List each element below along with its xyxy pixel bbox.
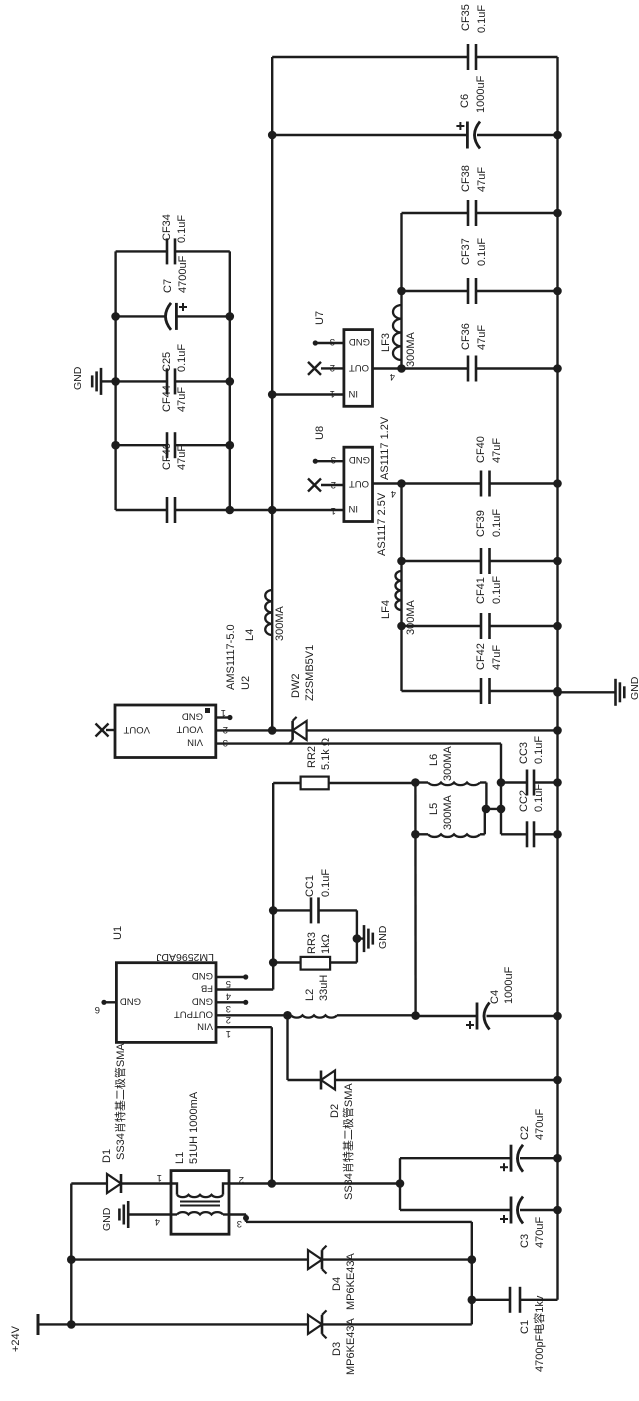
wire link vertical [485,808,501,810]
node CF40-GND [553,479,562,488]
inductor LF4 300MA [400,609,402,611]
svg-text:MP6KE43A: MP6KE43A [345,1252,357,1310]
svg-text:470uF: 470uF [534,1217,546,1248]
inductor L6 300MA [415,781,428,783]
svg-text:L5: L5 [428,803,440,815]
ground at L1 pin4 [127,1201,130,1228]
1.2V output rail [400,360,402,369]
ground near RR3 [363,925,366,952]
pin 4 wire (U7) [373,367,402,369]
svg-text:OUTPUT: OUTPUT [174,1009,213,1020]
svg-text:VOUT: VOUT [123,724,150,735]
regulator U7 box [344,330,373,407]
node CC3-GND [553,778,562,787]
node CF46/5V bus [226,506,235,515]
svg-text:1: 1 [226,1028,231,1039]
node VIN wire tap [268,1179,277,1188]
wire FB horizontal [272,783,274,990]
svg-text:CF39: CF39 [475,510,487,537]
svg-text:+24V: +24V [10,1325,22,1352]
svg-text:CC3: CC3 [518,742,530,764]
svg-text:GND: GND [349,336,370,347]
node CC2-GND [553,830,562,839]
wire D4 to bottom node line [322,1258,472,1260]
wire L5 bottom link [484,809,486,834]
regulator U8 box [344,447,373,521]
wire U1 pin1 riser [216,1026,272,1028]
wire D2 to GND rail [335,1079,558,1081]
svg-text:1kΩ: 1kΩ [320,934,332,954]
svg-text:300MA: 300MA [405,331,417,367]
svg-text:CF34: CF34 [161,214,173,241]
node U7 OUT [397,364,406,373]
svg-text:3: 3 [223,737,228,748]
pin 2 stub with X (U8) [321,484,344,486]
svg-text:5: 5 [226,978,231,989]
svg-text:1: 1 [157,1172,162,1183]
wire VIN horizontal to U1 [271,1027,273,1183]
ground at cap group [101,380,116,382]
capacitor C25 0.1uF [116,380,167,382]
svg-text:RR2: RR2 [306,746,318,768]
svg-text:LF3: LF3 [380,333,392,352]
svg-text:CC1: CC1 [304,875,316,897]
svg-text:D2: D2 [329,1104,341,1118]
svg-text:4: 4 [391,488,396,499]
svg-text:1: 1 [330,388,335,399]
node CF39 tap [397,557,406,566]
node U8 IN [268,506,277,515]
node C6-GND [553,131,562,140]
svg-text:3: 3 [330,336,335,347]
pin 3 stub (U8) [315,460,344,462]
wire filtered VIN line [500,744,502,835]
capacitor CF35 0.1uF [272,56,468,58]
svg-text:4: 4 [390,371,395,382]
svg-text:47uF: 47uF [176,387,188,412]
node D2-GND [553,1076,562,1085]
svg-text:0.1uF: 0.1uF [533,736,545,764]
svg-text:D1: D1 [101,1149,113,1163]
node CF37-GND [553,287,562,296]
svg-text:C25: C25 [161,352,173,372]
wire RR3/CC1 bottom link [356,910,358,962]
cap group 5V bus [229,251,231,510]
svg-text:1: 1 [331,505,336,516]
svg-text:4700uF: 4700uF [177,255,189,293]
wire to D1 [71,1182,108,1184]
svg-text:47uF: 47uF [491,645,503,670]
capacitor CF37 0.1uF [402,290,469,292]
capacitor CF42 47uF [402,690,482,692]
svg-text:GND: GND [72,366,84,390]
node CF36-GND [553,364,562,373]
wire D2 branch horizontal [286,1015,288,1080]
wire D3 to corner [322,1323,472,1325]
node link left [482,805,491,814]
wire L1 pin2 down (VIN node) [229,1182,400,1184]
node D4 bottom [468,1255,477,1264]
capacitor C6 1000uF [272,134,467,136]
wire L6 bottom link [485,783,487,809]
wire L1 pin4 to ground [128,1213,171,1215]
5V rail right segment [271,57,273,590]
node C2-GND [553,1154,562,1163]
node C7 top [111,312,120,321]
node CC3 tap [497,778,506,787]
svg-text:Z2SMB5V1: Z2SMB5V1 [304,645,316,701]
capacitor CF36 47uF [402,367,469,369]
svg-text:300MA: 300MA [442,794,454,830]
svg-text:3: 3 [331,454,336,465]
pin 2 stub with X (U7) [321,367,344,369]
node CF37 tap [397,287,406,296]
svg-text:1000uF: 1000uF [503,966,515,1004]
pin 2 OUTPUT wire (U1) [216,1014,291,1016]
U2 top pin with no-connect [106,729,115,731]
pin 5 stub (U1) [216,976,246,978]
node C2/C3 junction [396,1179,405,1188]
svg-text:IN: IN [348,503,358,514]
diode D2 SS34 (catch) [321,1071,335,1090]
capacitor CF44 47uF [116,444,167,446]
svg-text:0.1uF: 0.1uF [491,576,503,604]
svg-text:L6: L6 [428,754,440,766]
capacitor C1 4700pF [472,1299,510,1301]
svg-text:4: 4 [155,1216,160,1227]
node CF41-GND [553,622,562,631]
node RR3 tap [269,958,278,967]
inductor L5 300MA [415,833,428,835]
transformer L1 51UH 1000mA [171,1171,229,1235]
capacitor CC3 0.1uF [501,781,527,783]
svg-text:3: 3 [237,1218,242,1229]
svg-text:OUT: OUT [349,362,369,373]
node C25 top / gnd stem [111,377,120,386]
wire top node horizontal [70,1184,72,1325]
svg-text:47uF: 47uF [476,167,488,192]
svg-text:AS1117 1.2V: AS1117 1.2V [379,416,391,480]
wire +24V vertical to D3 [71,1323,308,1325]
capacitor CC1 0.1uF [273,909,311,911]
svg-text:47uF: 47uF [176,445,188,470]
svg-text:U1: U1 [112,926,124,940]
svg-text:C7: C7 [162,279,174,293]
2.5V output rail [400,610,402,691]
svg-text:AS1117 2.5V: AS1117 2.5V [376,492,388,556]
svg-text:0.1uF: 0.1uF [176,344,188,372]
pin 4 wire (U8) [373,482,402,484]
svg-text:C4: C4 [489,990,501,1004]
5V rail left segment [271,635,273,730]
svg-text:0.1uF: 0.1uF [491,509,503,537]
zener DW2 Z2SMB5V1 [293,721,307,740]
pin 1 GND stub (U2) [216,716,230,718]
svg-text:2: 2 [331,479,336,490]
inductor LF3 300MA [400,359,402,361]
svg-text:0.1uF: 0.1uF [476,5,488,33]
pin 2 VOUT wire (U2) [216,729,293,731]
pin1 marker square (U2) [205,708,210,713]
diode D3 MP6KE43A [308,1315,322,1334]
svg-text:AMS1117-5.0: AMS1117-5.0 [225,624,237,690]
svg-text:MP6KE43A: MP6KE43A [345,1317,357,1375]
pin 3 stub (U1) [216,1001,246,1003]
node C4/L2 [411,1011,420,1020]
regulator U2 AMS1117-5.0 box [115,705,216,758]
svg-text:47uF: 47uF [491,438,503,463]
node CF38-GND [553,209,562,218]
svg-text:4700pF电容1kv: 4700pF电容1kv [532,1295,546,1372]
svg-text:DW2: DW2 [290,674,302,698]
wire C2C3 link [399,1158,401,1210]
wire D2 branch vertical [288,1079,322,1081]
pin 4 FB wire (U1) [216,988,273,990]
node L6/RR2 tap [411,778,420,787]
svg-text:CF36: CF36 [460,323,472,350]
svg-text:C3: C3 [519,1234,531,1248]
svg-text:D4: D4 [331,1277,343,1291]
capacitor CC2 0.1uF [501,833,527,835]
node U8 OUT [397,479,406,488]
node CF44 top [111,441,120,450]
svg-text:LM2596ADJ: LM2596ADJ [156,951,214,963]
svg-text:300MA: 300MA [442,745,454,781]
node L5 tap [411,830,420,839]
node CF39-GND [553,557,562,566]
svg-text:6: 6 [95,1004,100,1015]
capacitor C7 4700uF polarized [116,315,166,317]
svg-text:2: 2 [223,724,228,735]
capacitor C4 1000uF [416,1015,477,1017]
svg-text:3: 3 [226,1003,231,1014]
pin 1 wire (U7) [272,393,344,395]
node C6 (5V) [268,131,277,140]
node C3-GND [553,1206,562,1215]
svg-text:C2: C2 [519,1126,531,1140]
cap group GND bus [114,251,116,510]
node C7 bottom [226,312,235,321]
svg-text:0.1uF: 0.1uF [320,869,332,897]
svg-text:1000uF: 1000uF [475,75,487,113]
node gnd-stem [553,688,562,697]
svg-text:CF42: CF42 [475,643,487,670]
diode D4 MP6KE43A [308,1250,322,1269]
capacitor CF46 47uF [116,509,167,511]
svg-text:U2: U2 [240,676,252,690]
svg-text:51UH 1000mA: 51UH 1000mA [188,1091,200,1164]
svg-text:L2: L2 [304,989,316,1001]
svg-text:GND: GND [629,676,639,700]
svg-text:CF35: CF35 [460,4,472,31]
capacitor C2 470uF [400,1157,511,1159]
svg-text:U7: U7 [314,311,326,325]
pin 6 stub (U1) [104,1001,116,1003]
ground symbol on GND rail [558,691,616,693]
capacitor CF38 47uF [402,212,469,214]
svg-text:GND: GND [101,1207,113,1231]
node link bottom [497,805,506,814]
pin 3 stub (U7) [315,342,344,344]
svg-text:GND: GND [182,711,203,722]
node VOUT/L4/DW2 [268,726,277,735]
svg-text:VIN: VIN [187,737,203,748]
svg-text:300MA: 300MA [405,599,417,635]
svg-text:VIN: VIN [197,1021,213,1032]
node CF41 tap [397,622,406,631]
node OUTPUT/D2 [283,1011,292,1020]
svg-text:33uH: 33uH [318,975,330,1001]
node CF42-GND [553,687,562,696]
node CC1 tap [269,906,278,915]
svg-text:0.1uF: 0.1uF [476,238,488,266]
svg-text:U8: U8 [314,426,326,440]
wire D4 branch [71,1258,308,1260]
wire U2 VIN riser [216,742,501,744]
capacitor CF41 0.1uF [402,625,482,627]
svg-text:0.1uF: 0.1uF [176,215,188,243]
svg-text:RR3: RR3 [306,932,318,954]
node D4 tap [67,1255,76,1264]
wire D1 to L1 pin1 [121,1182,171,1184]
svg-text:GND: GND [192,996,213,1007]
svg-text:CF38: CF38 [460,165,472,192]
inductor L4 300MA [271,634,273,636]
svg-text:1: 1 [221,707,226,718]
svg-text:GND: GND [377,925,389,949]
resistor RR3 1k [273,961,300,963]
svg-text:CF40: CF40 [475,436,487,463]
bottom node line [471,1222,473,1325]
svg-text:4: 4 [226,991,231,1002]
node DW2-GND [553,726,562,735]
resistor RR2 5.1k [273,782,300,784]
svg-text:C1: C1 [519,1320,531,1334]
svg-text:IN: IN [348,388,358,399]
inductor L2 33uH [288,1014,292,1016]
svg-text:2: 2 [226,1014,231,1025]
node GND stub [353,934,362,943]
svg-text:GND: GND [192,970,213,981]
wire GND stub [357,937,364,939]
capacitor CF34 0.1uF [116,250,167,252]
svg-text:300MA: 300MA [274,605,286,641]
svg-text:SS34肖特基二极管SMA: SS34肖特基二极管SMA [113,1043,127,1160]
+24V input terminal [38,1323,71,1325]
svg-text:D3: D3 [331,1342,343,1356]
svg-text:GND: GND [120,996,141,1007]
node C25 bottom [226,377,235,386]
svg-text:OUT: OUT [349,478,369,489]
svg-text:FB: FB [201,983,213,994]
svg-text:SS34肖特基二极管SMA: SS34肖特基二极管SMA [341,1083,355,1200]
wire DW2 to GND rail [307,729,558,731]
svg-text:L4: L4 [244,629,256,641]
svg-text:L1: L1 [174,1152,186,1164]
wire L2 output line [414,783,417,1017]
jog dot (L1 pin3) [243,1215,249,1221]
svg-text:VOUT: VOUT [176,724,203,735]
diode D1 SS34 [107,1174,121,1193]
node CF44 bottom [226,441,235,450]
GND rail [556,57,558,1300]
capacitor CF40 47uF [402,482,482,484]
op-amp U1 LM2596ADJ box [116,963,216,1043]
node C1 tap [468,1296,477,1305]
svg-text:47uF: 47uF [476,325,488,350]
svg-text:C6: C6 [459,94,471,108]
svg-text:GND: GND [349,454,370,465]
capacitor C3 470uF [400,1209,511,1211]
svg-text:470uF: 470uF [534,1109,546,1140]
node +24V/D1 [67,1320,76,1329]
node U7 IN [268,390,277,399]
svg-text:CF41: CF41 [475,577,487,604]
svg-text:LF4: LF4 [380,600,392,619]
wire L1 pin3 down [229,1213,246,1215]
capacitor CF39 0.1uF [402,560,482,562]
svg-text:CF37: CF37 [460,238,472,265]
node C4-GND [553,1012,562,1021]
svg-text:2: 2 [330,362,335,373]
